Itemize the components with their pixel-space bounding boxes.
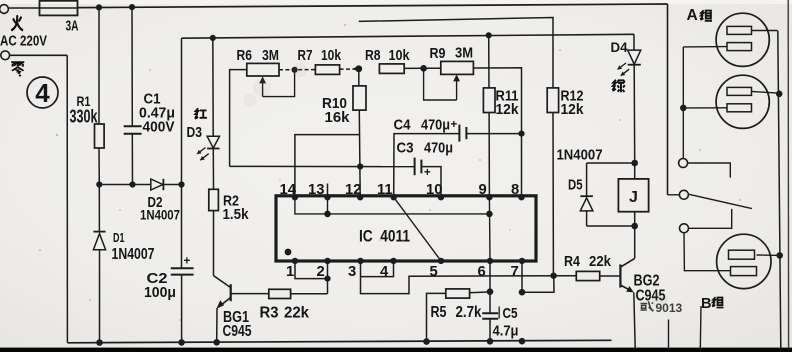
- resistor R12: [547, 88, 558, 113]
- svg-text:AC 220V: AC 220V: [0, 33, 48, 50]
- IC pin1 marker dot: [285, 249, 292, 256]
- label 火 (live): [12, 16, 22, 30]
- wire: C2 column: [181, 38, 183, 342]
- resistor R7: [315, 65, 339, 75]
- IC pin 4 (bottom): [380, 258, 397, 280]
- relay contact: common B: [679, 190, 752, 208]
- svg-text:R8: R8: [365, 48, 381, 64]
- svg-text:6: 6: [478, 264, 486, 280]
- wire: D2 row: [99, 184, 181, 186]
- svg-text:R4: R4: [564, 254, 581, 270]
- wire: D5 leads: [586, 163, 588, 226]
- label C3 470u: [397, 141, 454, 157]
- svg-text:12: 12: [345, 182, 361, 198]
- wire: pin14 up and over: [295, 135, 360, 198]
- node: D2 row / C2 column: [178, 181, 184, 187]
- node: pin7 jog: [519, 289, 526, 296]
- wire: R6 left leg: [230, 70, 247, 167]
- svg-text:A: A: [687, 7, 698, 24]
- node: B1 right junction: [776, 252, 783, 259]
- wire: R8-R9 link: [404, 67, 423, 69]
- svg-text:22k: 22k: [589, 254, 612, 270]
- svg-text:4: 4: [35, 78, 50, 108]
- wire: D5 loop bottom: [587, 225, 635, 227]
- node: rail VDD - R11 column: [486, 32, 492, 38]
- wire: pin1 bracket: [295, 261, 328, 279]
- node: bottom rail junction: [178, 339, 185, 346]
- svg-text:1N4007: 1N4007: [140, 207, 180, 223]
- label 3A: [66, 19, 79, 35]
- svg-text:R5: R5: [431, 304, 447, 321]
- svg-text:400V: 400V: [143, 118, 175, 135]
- potentiometer R6 3M: [247, 63, 295, 96]
- svg-text:C3: C3: [397, 141, 414, 157]
- svg-text:100μ: 100μ: [144, 285, 176, 301]
- svg-text:16k: 16k: [325, 110, 351, 126]
- svg-text:C945: C945: [223, 323, 252, 340]
- IC internal: pin9-pin6 link: [488, 197, 491, 261]
- wire: top live rail: [78, 4, 668, 195]
- wire: rail2 R7R8-node to R12: [359, 18, 553, 89]
- label D5: [568, 178, 583, 194]
- IC pin 13 (top): [308, 182, 331, 201]
- label 零 (neutral): [11, 62, 24, 76]
- wire: C4 left to pin11: [394, 134, 459, 198]
- svg-text:14: 14: [280, 182, 297, 198]
- IC pin 7 (bottom): [511, 258, 526, 280]
- svg-text:1.5k: 1.5k: [223, 206, 250, 223]
- svg-text:B: B: [701, 296, 712, 312]
- wire: R1 column: [98, 7, 100, 184]
- label C1: [139, 91, 175, 136]
- svg-text:D1: D1: [113, 230, 125, 245]
- svg-text:9: 9: [479, 182, 487, 198]
- wire: pin6 column: [489, 261, 491, 342]
- svg-text:13: 13: [308, 182, 324, 198]
- label R8 10k: [365, 48, 410, 64]
- IC internal: pin11-pin5 diagonal: [394, 197, 441, 261]
- wire: R9 right to pin8 column: [473, 68, 521, 197]
- resistor R2: [209, 189, 219, 210]
- IC pin 14 (top): [280, 182, 299, 201]
- svg-text:+: +: [424, 167, 431, 179]
- label R4 22k: [564, 254, 612, 270]
- node: C3 row / R10-pin12: [357, 163, 363, 169]
- resistor R5: [446, 289, 470, 298]
- node: R12-R4 junction: [550, 273, 556, 279]
- node: bottom rail junction: [423, 338, 430, 345]
- label R11 12k: [496, 88, 520, 118]
- svg-text:3M: 3M: [455, 45, 473, 61]
- wire: R6-R7 link: [279, 69, 315, 71]
- svg-text:1: 1: [286, 264, 294, 280]
- svg-text:D5: D5: [568, 178, 583, 194]
- resistor R4: [576, 271, 599, 280]
- svg-text:C4: C4: [394, 118, 412, 134]
- label R6 3M: [237, 48, 280, 64]
- label A zu (group A): [687, 7, 713, 24]
- label C4 470u: [394, 118, 451, 134]
- capacitor C5 4.7u: [482, 313, 498, 319]
- svg-text:3M: 3M: [262, 48, 279, 64]
- IC internal node below pin9: [486, 211, 493, 218]
- label R5 2.7k: [431, 304, 482, 321]
- capacitor C2 100u: [171, 256, 194, 275]
- relay J: [618, 179, 648, 212]
- resistor R1: [95, 124, 105, 148]
- svg-text:2: 2: [317, 264, 325, 280]
- svg-text:R7: R7: [298, 48, 313, 64]
- svg-text:1N4007: 1N4007: [112, 246, 155, 263]
- label AC 220V: [0, 33, 48, 50]
- wire: R7-R8 link: [340, 68, 359, 70]
- label D4: [611, 40, 629, 55]
- node: bottom rail junction: [96, 339, 103, 346]
- svg-text:+: +: [451, 119, 458, 131]
- capacitor C3 470u: [415, 158, 431, 179]
- svg-text:12k: 12k: [496, 101, 520, 118]
- svg-text:4.7μ: 4.7μ: [493, 323, 519, 339]
- label C5: [493, 305, 519, 339]
- wire: R12 bottom column: [552, 113, 554, 276]
- label R3 22k: [260, 305, 310, 322]
- svg-text:11: 11: [377, 182, 393, 198]
- wire: right distribution column: [778, 31, 781, 349]
- node: C1 top junction: [129, 4, 135, 10]
- svg-text:C5: C5: [503, 305, 518, 322]
- label B zu (group B): [701, 296, 724, 312]
- wire: group A left column: [682, 47, 684, 159]
- scan border right edge: [787, 0, 789, 352]
- IC pin 6 (bottom): [478, 258, 494, 280]
- wire: pins3-4 bracket: [361, 261, 394, 277]
- node: relay bottom junction: [631, 223, 638, 230]
- wire: pin7 jog: [522, 261, 554, 292]
- svg-text:8: 8: [511, 182, 519, 198]
- IC U1 4011 body: [276, 196, 536, 261]
- IC pin 10 (top): [426, 182, 444, 201]
- label 红 (red): [195, 108, 207, 119]
- label 1N4007 (D5): [557, 146, 603, 163]
- figure number circle 4: [27, 77, 58, 108]
- svg-text:10k: 10k: [321, 48, 342, 64]
- wire: D4 column: [633, 34, 636, 163]
- wire: R10 column: [359, 69, 360, 198]
- IC pin 5 (bottom): [430, 258, 445, 280]
- label R9 3M: [430, 45, 474, 61]
- IC internal node below pin13: [324, 211, 331, 218]
- wire: common B to live rail: [668, 194, 680, 196]
- wire: D3-R2 column: [212, 38, 215, 276]
- label R7 10k: [298, 48, 342, 64]
- LED D3 (red): [197, 136, 220, 160]
- node: D2 row / C1: [129, 181, 135, 187]
- potentiometer R9 3M: [424, 61, 474, 100]
- wire: contact C to outlet B: [684, 233, 730, 271]
- relay contact: throw C: [680, 209, 732, 233]
- svg-text:7: 7: [511, 264, 519, 280]
- node: pins1-2 junction: [324, 276, 330, 282]
- wire: D1 column: [98, 185, 100, 343]
- label C2: [144, 270, 176, 301]
- svg-text:R3: R3: [260, 305, 279, 322]
- svg-text:5: 5: [430, 264, 438, 280]
- transistor BG2 C945: [620, 258, 635, 348]
- label BG2: [634, 273, 666, 305]
- svg-text:D3: D3: [187, 125, 203, 141]
- wire: C4 right to pin8 col: [466, 133, 521, 135]
- IC pin 13 stub: [327, 184, 329, 196]
- node: bottom rail junction: [213, 339, 220, 346]
- node: A2 right junction: [776, 91, 783, 98]
- IC pin 3 (bottom): [348, 258, 364, 280]
- label BG1: [223, 309, 252, 340]
- node: rail VDD - D3 column: [210, 35, 216, 41]
- node: R8-R9 junction: [420, 65, 427, 72]
- wire: bottom rail: [67, 340, 611, 343]
- LED D4 (green): [618, 50, 641, 76]
- IC pin 9 (top): [479, 182, 493, 201]
- label 或9013 (alt type, smudged): [641, 301, 683, 315]
- terminal: neutral (N): [1, 51, 67, 60]
- label D3: [187, 125, 203, 141]
- scan border bottom bar: [0, 348, 792, 352]
- wire: C1 column: [131, 7, 134, 184]
- label D1: [112, 230, 155, 263]
- wire: R5 leads: [427, 292, 491, 342]
- label R1: [70, 94, 99, 127]
- resistor R8: [379, 64, 404, 74]
- svg-text:470μ: 470μ: [424, 141, 453, 157]
- svg-text:D4: D4: [611, 40, 629, 55]
- capacitor C1: [124, 126, 142, 134]
- svg-text:330k: 330k: [70, 107, 99, 127]
- node: fuse-R1 junction: [96, 4, 102, 10]
- node: relay top junction: [631, 160, 638, 167]
- resistor R3: [269, 289, 291, 298]
- wire: stub below B-group label: [699, 306, 702, 349]
- wire: J column: [634, 163, 636, 258]
- svg-text:2.7k: 2.7k: [456, 304, 482, 321]
- node: bottom rail junction: [487, 338, 494, 345]
- socket B1 (group B): [717, 234, 780, 288]
- resistor R10: [353, 86, 366, 110]
- relay contact: throw A: [679, 159, 731, 178]
- diode D1 1N4007: [93, 232, 105, 250]
- terminal: live (L): [0, 5, 40, 14]
- wire: D5 loop top: [587, 162, 635, 164]
- svg-text:12k: 12k: [561, 101, 585, 118]
- scan noise specks: [39, 24, 741, 321]
- wire: neutral column: [66, 55, 68, 342]
- label R2: [223, 194, 250, 224]
- svg-text:3: 3: [348, 264, 356, 280]
- IC pin 12 (top): [345, 182, 363, 201]
- svg-text:+: +: [184, 256, 191, 268]
- wire: C3 right to pin10: [421, 167, 441, 198]
- transistor BG1 C945: [214, 276, 231, 343]
- wire: C3 row (node A): [230, 165, 415, 167]
- socket A1 (upper, group A): [683, 13, 777, 66]
- svg-text:3A: 3A: [66, 19, 79, 35]
- svg-text:10: 10: [426, 182, 442, 198]
- node: R7-R8-R10 junction: [353, 65, 363, 72]
- IC internal: pins14-13-9 link: [295, 197, 490, 214]
- wire: R11 column: [488, 35, 491, 197]
- wire: R3 to pins 1-2: [291, 261, 328, 294]
- diode D5 1N4007: [580, 196, 593, 211]
- wire: pin3 jog to R4 line: [361, 261, 577, 294]
- node: bottom rail junction: [519, 338, 526, 345]
- IC pin 2 (bottom): [317, 258, 331, 280]
- svg-text:R6: R6: [237, 48, 253, 64]
- wire: R4 to BG2 base: [600, 275, 621, 277]
- node: group A left junction: [680, 105, 687, 112]
- svg-text:J: J: [629, 189, 638, 206]
- resistor R11: [483, 88, 495, 113]
- svg-text:1N4007: 1N4007: [557, 146, 603, 163]
- diode D2 1N4007: [151, 179, 164, 190]
- capacitor C4 470u: [451, 119, 467, 141]
- node: C4-pin8 junction: [518, 131, 524, 137]
- IC pin 8 (top): [511, 182, 525, 201]
- node: D2 row / R1-D1: [96, 181, 102, 187]
- svg-text:R9: R9: [430, 46, 446, 62]
- fuse 3A: [40, 1, 78, 16]
- svg-text:22k: 22k: [284, 305, 309, 322]
- node: R6 wiper junction: [292, 67, 298, 73]
- label R12 12k: [561, 88, 585, 118]
- label R10 16k: [322, 96, 350, 126]
- svg-text:4: 4: [380, 264, 389, 280]
- IC pin 11 (top): [377, 182, 397, 201]
- wire: stub below BG2 area: [668, 320, 670, 350]
- label D2: [140, 195, 180, 223]
- wire: R9 left leg: [424, 67, 441, 69]
- wire: VDD rail (y36): [182, 34, 635, 38]
- svg-text:470μ: 470μ: [421, 118, 450, 134]
- socket A2 (lower, group A): [683, 75, 779, 128]
- svg-text:IC 4011: IC 4011: [359, 227, 410, 245]
- svg-text:10k: 10k: [389, 48, 411, 64]
- label IC 4011: [359, 227, 410, 245]
- label 绿 (green): [612, 80, 624, 92]
- wire: BG1 base to R3: [231, 293, 269, 295]
- node: R5-pin6 junction: [487, 288, 494, 295]
- IC pin 1 (bottom): [286, 258, 298, 280]
